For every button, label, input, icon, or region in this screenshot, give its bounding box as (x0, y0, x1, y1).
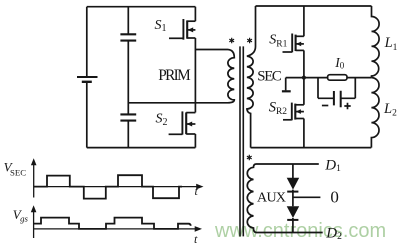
ground bar (282, 90, 291, 92)
auxiliary winding with top and bottom leads (247, 164, 322, 233)
transistor SR1 body stub (296, 43, 304, 45)
wire capacitor branch bottom (127, 121, 129, 148)
wire left rail upper (86, 7, 88, 77)
wire S1 drain to top rail (194, 7, 196, 22)
transistor SR2 channel bar (294, 104, 296, 120)
secondary winding with top lead to top rail and bottom lead to bottom rail (247, 6, 256, 148)
wire D2 cathode to bottom aux wire (292, 218, 294, 233)
transformer core line right (242, 46, 244, 236)
transistor SR1 source stub (296, 49, 304, 51)
transistor S2 drain stub (186, 112, 195, 114)
wire output node to reference stub (286, 78, 304, 91)
wire S2 source to bottom rail (194, 134, 196, 148)
transistor S2 channel bar (185, 112, 187, 134)
transistor SR1 body arrow (296, 42, 301, 47)
svg-text:0: 0 (330, 188, 339, 207)
wire SR2 source to bottom rail (303, 119, 305, 148)
wire I0 box to L1-L2 center tap (347, 77, 371, 79)
wire output capacitor branch left (318, 78, 334, 99)
transistor S1 body stub (187, 29, 195, 31)
svg-text:PRIM: PRIM (158, 67, 191, 84)
transistor S1 drain stub (187, 20, 195, 22)
waveform Vgs staircase (34, 218, 191, 229)
capacitor C2 plates (120, 114, 136, 120)
transistor S1 gate bar (182, 19, 184, 40)
Vsec y-axis (33, 161, 35, 198)
inductor L2 (371, 78, 379, 148)
transformer core line left (239, 46, 241, 236)
wire 0-reference middle (293, 196, 321, 198)
wire capacitor midpoint node (127, 41, 129, 115)
polarity asterisk auxiliary (247, 155, 252, 161)
wire SR1 drain to top rail (303, 6, 305, 36)
polarity asterisk secondary (247, 38, 252, 44)
wire left rail lower (86, 82, 88, 148)
diode D2 cathode bar (287, 219, 298, 221)
Vgs x-axis (34, 228, 196, 230)
transistor SR1 drain stub (296, 35, 304, 37)
transistor S1 gate lead (169, 37, 183, 39)
transistor S2 body stub (186, 123, 195, 125)
transistor S2 gate bar (181, 111, 183, 134)
transistor S2 gate lead (169, 133, 183, 135)
wire top rail (primary side) (87, 6, 196, 8)
wire bottom rail (secondary side) (251, 147, 372, 149)
label plus (344, 103, 350, 109)
transistor SR2 body stub (295, 111, 304, 113)
transistor SR2 source stub (295, 118, 304, 120)
Vgs y-axis (33, 208, 35, 238)
diode D1 cathode bar (287, 191, 298, 193)
capacitor C1 plates (120, 34, 136, 40)
transistor S1 body arrow (188, 27, 194, 32)
diode D2 triangle (287, 206, 300, 218)
wire node A vertical S1-source to S2-drain (194, 38, 196, 113)
transistor SR1 channel bar (295, 35, 297, 51)
inductor L1 (372, 6, 380, 78)
waveform Vsec square wave (34, 175, 182, 198)
node dot output junction (302, 76, 306, 80)
svg-text:AUX: AUX (257, 190, 286, 205)
svg-text:SEC: SEC (257, 69, 282, 85)
Vgs x-axis arrowhead (195, 226, 202, 232)
transistor SR2 gate lead (283, 119, 292, 121)
Vsec y-axis arrowhead (31, 158, 37, 165)
polarity asterisk primary (229, 38, 234, 44)
transistor SR2 gate bar (291, 103, 293, 121)
wire diode column D1 anode (292, 164, 294, 178)
battery V-in long plate (77, 76, 98, 78)
load box I0 (328, 75, 347, 81)
transistor S2 body arrow (187, 122, 193, 127)
transistor SR2 body arrow (296, 109, 301, 114)
transistor SR1 gate bar (291, 34, 293, 53)
diode D1 triangle (287, 178, 300, 190)
output capacitor plates - + (334, 91, 341, 108)
wire capacitor branch top (127, 7, 129, 35)
transistor S1 channel bar (186, 20, 188, 38)
Vsec x-axis arrowhead (196, 184, 203, 190)
battery V-in short plate (82, 81, 92, 83)
transistor SR1 gate lead (283, 51, 293, 53)
transistor SR2 drain stub (295, 104, 304, 106)
transistor S1 source stub (187, 37, 195, 39)
wire diode column D1 cathode to D2 anode (292, 190, 294, 207)
wire SR1 source down to output node and SR2 drain (303, 50, 305, 104)
Vgs y-axis arrowhead (31, 205, 37, 212)
wire output node to I0 box (304, 77, 328, 79)
wire bottom rail (primary side) (87, 147, 196, 149)
label minus (322, 105, 328, 107)
wire output capacitor branch right (341, 78, 355, 99)
Vsec x-axis (34, 186, 198, 188)
transistor S2 source stub (186, 133, 195, 135)
wire top rail (secondary side) (256, 5, 372, 7)
primary winding with top lead from node A and bottom lead to capacitor midpoint (128, 50, 234, 103)
